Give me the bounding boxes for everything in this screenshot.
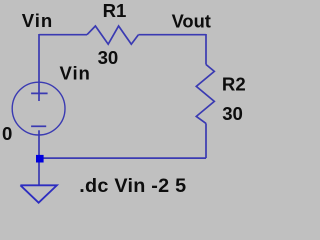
voltage source plus sign (horizontal bar) xyxy=(31,92,47,94)
svg-text:30: 30 xyxy=(98,47,119,68)
svg-text:R2: R2 xyxy=(222,74,246,95)
resistor R1 (body zigzag) xyxy=(87,26,138,44)
resistor R2 (body zigzag) xyxy=(196,65,214,124)
voltage source minus sign xyxy=(31,125,46,127)
wire: source bottom lead to ground bar xyxy=(38,130,40,185)
svg-text:R1: R1 xyxy=(103,0,127,21)
wire: R2 bottom lead down to bottom net xyxy=(205,123,207,158)
svg-text:Vout: Vout xyxy=(172,10,211,31)
wire: R1 right lead to Vout corner xyxy=(138,34,206,36)
svg-text:.dc Vin -2 5: .dc Vin -2 5 xyxy=(79,175,186,197)
wire: Vin corner down into source V1 top xyxy=(38,34,40,101)
svg-text:Vin: Vin xyxy=(60,63,91,84)
svg-text:0: 0 xyxy=(2,123,12,144)
wire: top net Vin->R1->Vout corner xyxy=(39,34,87,36)
ground symbol xyxy=(20,185,57,202)
svg-text:Vin: Vin xyxy=(22,10,53,31)
wire: bottom net from junction to R2 xyxy=(39,157,206,159)
voltage source Vin (circle) xyxy=(12,82,65,135)
junction node (solid square) xyxy=(36,155,44,163)
wire: Vout corner down to R2 top xyxy=(205,34,207,65)
svg-text:30: 30 xyxy=(222,103,243,124)
